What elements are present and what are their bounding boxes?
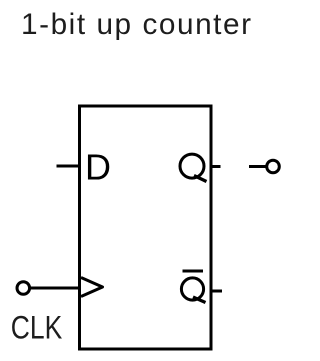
svg-text:1-bit up counter: 1-bit up counter <box>21 8 251 41</box>
node CLK input terminal (open circle) <box>17 282 30 295</box>
wire CLK input <box>30 287 81 290</box>
wire Q output stub <box>211 165 221 168</box>
pin label Q (ring) <box>180 154 204 178</box>
wire Q-bar output stub <box>211 290 222 293</box>
wire Q output lead <box>249 165 266 168</box>
flip-flop U1 body <box>80 106 212 349</box>
svg-text:CLK: CLK <box>11 310 63 346</box>
pin label Q-bar (tail) <box>193 297 206 303</box>
clock edge-trigger triangle <box>81 278 103 297</box>
wire D input stub <box>57 165 80 168</box>
svg-text:D: D <box>85 147 111 188</box>
node Q output terminal (open circle) <box>267 160 280 173</box>
pin label Q (tail) <box>194 176 207 182</box>
pin label Q-bar overbar <box>183 270 204 273</box>
pin label Q-bar (ring) <box>181 278 203 300</box>
